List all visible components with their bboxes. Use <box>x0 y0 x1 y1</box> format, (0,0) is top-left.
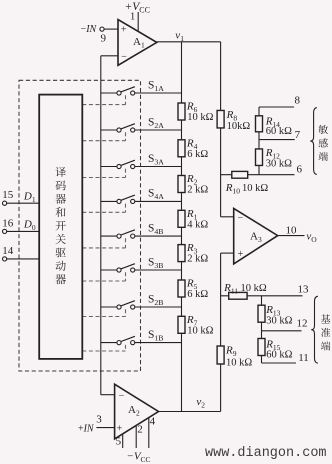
svg-text:+: + <box>121 25 127 36</box>
svg-text:13: 13 <box>298 284 310 296</box>
svg-text:60 kΩ: 60 kΩ <box>266 349 292 360</box>
svg-text:7: 7 <box>295 129 301 141</box>
svg-text:9: 9 <box>101 32 107 44</box>
svg-text:14: 14 <box>2 245 14 257</box>
svg-text:12: 12 <box>297 318 308 330</box>
svg-text:−: − <box>121 52 127 63</box>
svg-text:1: 1 <box>130 11 135 22</box>
svg-text:www.diangon.com: www.diangon.com <box>205 446 327 461</box>
svg-text:10kΩ: 10kΩ <box>227 121 251 132</box>
svg-text:30 kΩ: 30 kΩ <box>266 158 292 169</box>
svg-text:10 kΩ: 10 kΩ <box>241 283 267 294</box>
svg-text:6 kΩ: 6 kΩ <box>187 149 208 160</box>
svg-text:−: − <box>238 213 244 224</box>
svg-text:+: + <box>117 423 123 434</box>
svg-text:+: + <box>238 249 244 260</box>
svg-text:30 kΩ: 30 kΩ <box>266 315 292 326</box>
svg-text:15: 15 <box>2 189 14 201</box>
svg-text:10 kΩ: 10 kΩ <box>226 357 252 368</box>
svg-text:4 kΩ: 4 kΩ <box>187 219 208 230</box>
svg-text:10 kΩ: 10 kΩ <box>187 325 213 336</box>
svg-text:60 kΩ: 60 kΩ <box>266 126 292 137</box>
svg-text:10: 10 <box>286 224 298 236</box>
svg-text:11: 11 <box>298 352 309 364</box>
svg-text:−: − <box>119 391 125 402</box>
svg-text:+IN: +IN <box>78 423 95 434</box>
svg-text:16: 16 <box>2 217 14 229</box>
svg-text:−IN: −IN <box>81 24 98 35</box>
svg-text:8: 8 <box>294 95 300 107</box>
svg-text:5: 5 <box>116 436 122 448</box>
svg-text:10 kΩ: 10 kΩ <box>242 183 268 194</box>
svg-text:6: 6 <box>297 164 303 176</box>
svg-text:6 kΩ: 6 kΩ <box>187 289 208 300</box>
svg-text:2: 2 <box>137 423 143 435</box>
svg-text:2 kΩ: 2 kΩ <box>187 185 208 196</box>
svg-text:3: 3 <box>96 413 102 425</box>
svg-text:2 kΩ: 2 kΩ <box>187 254 208 265</box>
svg-text:10 kΩ: 10 kΩ <box>187 112 213 123</box>
svg-text:4: 4 <box>150 415 156 427</box>
